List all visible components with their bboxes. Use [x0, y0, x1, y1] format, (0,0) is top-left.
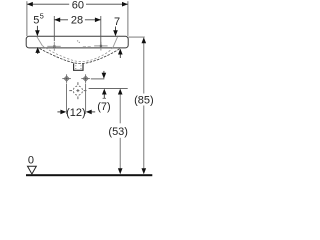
dim 12 arrow left	[57, 111, 61, 113]
svg-text:(85): (85)	[134, 94, 154, 106]
washbasin rim outline	[26, 36, 128, 48]
dim 85 arrow up	[142, 37, 147, 43]
inner wall diagonal left	[37, 37, 42, 46]
dim 60 extension line right	[127, 1, 129, 36]
svg-text:28: 28	[71, 15, 83, 27]
overflow specks on rim	[77, 40, 78, 41]
dim 28 line	[54, 19, 68, 21]
dim 53 arrow down	[118, 168, 123, 174]
floor line	[26, 174, 152, 176]
svg-text:(12): (12)	[66, 107, 86, 119]
rim top reference line to 85 dim	[128, 36, 145, 38]
dim 85 arrow down	[142, 168, 147, 174]
supply crosshair right	[81, 74, 90, 83]
svg-text:60: 60	[72, 0, 84, 11]
dim 7b arrow down	[103, 71, 105, 74]
tap hole cross right on rim	[94, 42, 107, 51]
dim 28 arrow left	[54, 18, 60, 23]
datum triangle	[28, 166, 37, 174]
tap hole cross left on rim	[47, 42, 60, 51]
dim 60 extension line left	[26, 1, 28, 36]
dim 12 arrow right	[91, 111, 96, 113]
svg-text:(53): (53)	[108, 126, 128, 138]
dim 85 vertical line	[143, 42, 145, 94]
dim 5.5 arrow down	[36, 26, 38, 32]
dim 5.5 arrow up	[37, 51, 39, 54]
dim 53 vertical line	[119, 93, 121, 123]
inner wall diagonal right	[113, 37, 118, 48]
svg-text:5: 5	[40, 12, 44, 21]
svg-text:5: 5	[33, 14, 39, 26]
dim 7 arrow up	[119, 53, 121, 59]
bowl inner dashed curve	[42, 46, 112, 62]
drain rectangle	[74, 63, 83, 70]
dashed axis between tap holes	[83, 45, 91, 47]
dim 7b upper reference dash	[91, 78, 105, 80]
svg-text:7: 7	[114, 16, 120, 28]
dim 28 extension right	[100, 16, 102, 48]
dim 28 arrow right	[95, 18, 101, 23]
dim 7 arrow down	[115, 27, 117, 32]
svg-text:(7): (7)	[97, 101, 110, 113]
trap level reference line	[89, 87, 128, 89]
dim 28 extension left	[53, 16, 55, 41]
dim 12 extension left	[66, 84, 68, 114]
dim 60 arrow right	[122, 2, 128, 7]
dim 60 line	[27, 3, 69, 5]
bowl outer curve	[40, 48, 121, 63]
dim 12 extension right	[85, 84, 87, 114]
dim 60 arrow left	[27, 2, 33, 7]
svg-text:0: 0	[28, 154, 34, 166]
trap circle	[73, 85, 84, 96]
dim 7b arrow up	[103, 93, 105, 99]
supply crosshair left	[62, 74, 71, 83]
dim 53 arrow up	[118, 89, 123, 95]
